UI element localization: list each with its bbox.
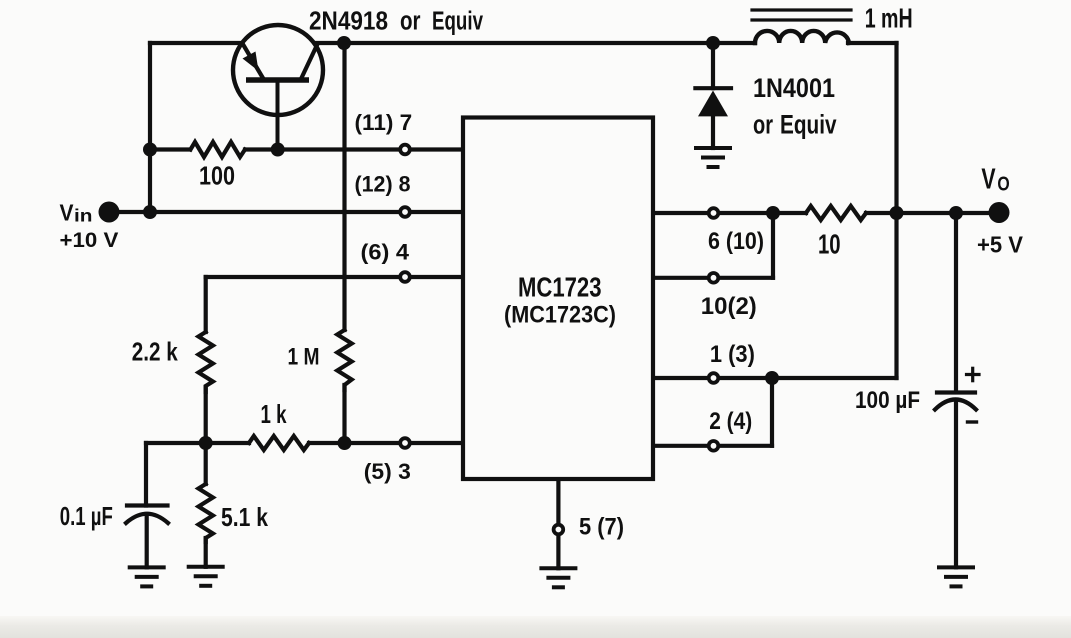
svg-text:(12) 8: (12) 8 [355, 172, 411, 197]
svg-text:+10 V: +10 V [60, 228, 119, 252]
svg-text:2 (4): 2 (4) [709, 408, 752, 435]
svg-text:6 (10): 6 (10) [708, 228, 764, 255]
svg-text:0.1 µF: 0.1 µF [60, 501, 113, 531]
svg-text:V: V [60, 200, 75, 226]
svg-text:MC1723: MC1723 [518, 272, 602, 303]
svg-text:O: O [997, 173, 1009, 196]
svg-text:V: V [981, 164, 995, 196]
svg-text:2N4918: 2N4918 [309, 7, 388, 35]
svg-text:or: or [753, 110, 773, 140]
svg-text:1N4001: 1N4001 [753, 73, 835, 103]
svg-text:100 µF: 100 µF [855, 387, 920, 414]
svg-text:(11) 7: (11) 7 [355, 110, 413, 135]
svg-text:1 M: 1 M [288, 344, 320, 371]
svg-text:5 (7): 5 (7) [579, 514, 624, 541]
svg-text:(MC1723C): (MC1723C) [504, 302, 616, 329]
svg-text:5.1 k: 5.1 k [221, 502, 268, 532]
svg-text:1 k: 1 k [261, 399, 287, 429]
svg-text:1 mH: 1 mH [865, 3, 913, 34]
svg-text:or: or [400, 7, 421, 35]
svg-text:+5 V: +5 V [977, 232, 1024, 258]
svg-text:100: 100 [199, 161, 235, 191]
svg-text:(6) 4: (6) 4 [361, 240, 410, 265]
svg-text:2.2 k: 2.2 k [132, 337, 178, 367]
svg-text:in: in [74, 206, 93, 226]
svg-text:(5) 3: (5) 3 [364, 459, 411, 484]
svg-text:Equiv: Equiv [780, 110, 837, 140]
svg-text:10: 10 [818, 228, 841, 259]
svg-text:Equiv: Equiv [432, 7, 484, 35]
svg-text:10(2): 10(2) [701, 293, 757, 320]
svg-text:1 (3): 1 (3) [710, 341, 755, 368]
